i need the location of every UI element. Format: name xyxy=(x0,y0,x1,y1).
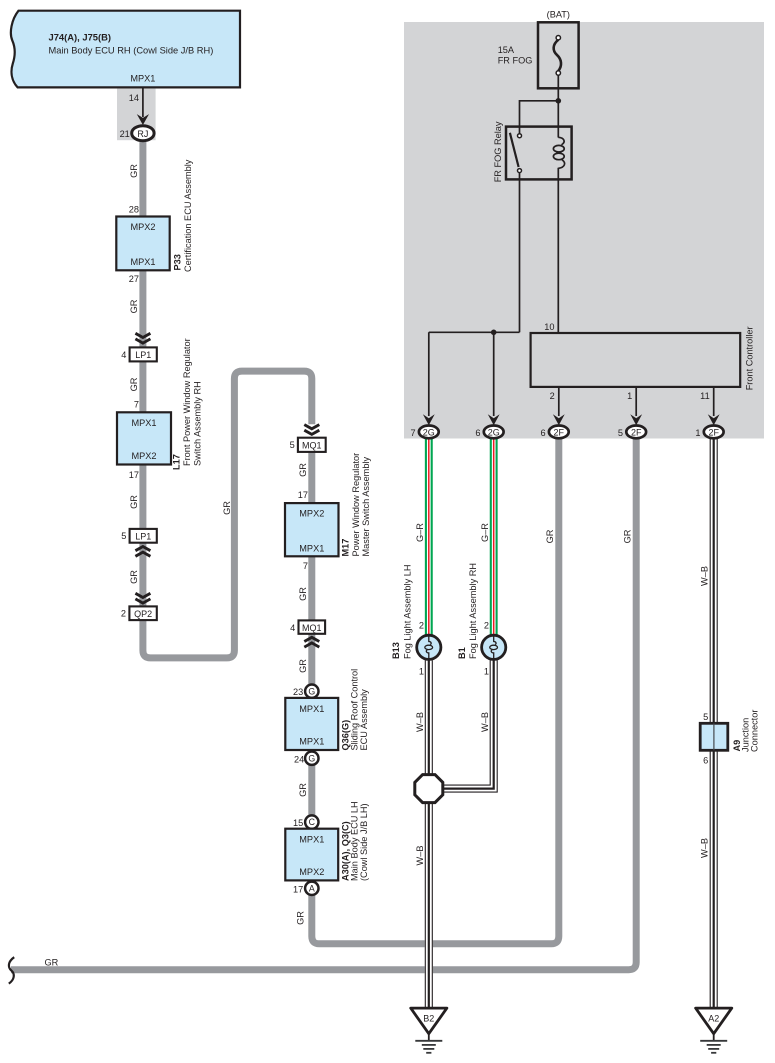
svg-text:QP2: QP2 xyxy=(134,609,152,619)
svg-text:Main Body ECU RH (Cowl Side J/: Main Body ECU RH (Cowl Side J/B RH) xyxy=(49,45,214,55)
wire GR: MQ1 pin 4 to Q36 pin 23 xyxy=(308,634,315,686)
svg-text:GR: GR xyxy=(129,495,139,509)
chevron marker into LP1 pin 4 xyxy=(135,333,150,343)
wire W-B: 2F-1 to junction connector A9 xyxy=(710,438,717,724)
chevron marker into QP2 xyxy=(135,593,150,603)
svg-text:W–B: W–B xyxy=(415,712,425,732)
svg-text:B13: B13 xyxy=(391,642,401,659)
chevron marker out of LP1 pin 5 xyxy=(135,547,150,557)
svg-text:2: 2 xyxy=(121,609,126,619)
svg-text:GR: GR xyxy=(298,587,308,601)
svg-text:Certification ECU Assembly: Certification ECU Assembly xyxy=(183,159,193,272)
svg-text:P33: P33 xyxy=(173,254,183,270)
svg-text:17: 17 xyxy=(298,490,308,500)
svg-text:2F: 2F xyxy=(631,427,642,437)
svg-text:11: 11 xyxy=(700,391,710,401)
wire GR: RJ to P33 pin 28 xyxy=(139,139,146,218)
svg-text:W–B: W–B xyxy=(415,846,425,866)
wire: junction branch to relay switch xyxy=(520,101,559,134)
svg-text:(BAT): (BAT) xyxy=(547,10,570,20)
svg-text:MPX1: MPX1 xyxy=(299,704,324,714)
svg-text:5: 5 xyxy=(618,428,623,438)
arrow into 2G-6 xyxy=(488,414,500,425)
gray connector strip under J74 box xyxy=(117,89,156,141)
svg-text:GR: GR xyxy=(45,958,59,968)
svg-text:GR: GR xyxy=(129,570,139,584)
ECU box P33 Certification ECU Assembly xyxy=(116,217,169,271)
fog light B1 bulb xyxy=(482,635,506,659)
svg-text:G–R: G–R xyxy=(415,523,425,542)
svg-text:Master Switch Assembly: Master Switch Assembly xyxy=(361,457,371,557)
svg-text:C: C xyxy=(309,817,316,827)
svg-text:7: 7 xyxy=(410,428,415,438)
connector circle A pin 17 xyxy=(305,882,318,895)
arrow into RJ xyxy=(137,114,149,125)
svg-text:RJ: RJ xyxy=(137,129,148,139)
svg-text:2: 2 xyxy=(419,620,424,630)
connector RJ (pin 21) xyxy=(132,126,154,141)
ECU box A30(A) Q3(C) Main Body ECU LH xyxy=(285,829,338,881)
ECU box Q36(G) Sliding Roof Control ECU xyxy=(285,698,338,750)
wire W-B: ground splice octagon to ground B2 xyxy=(425,801,432,1009)
svg-text:17: 17 xyxy=(293,884,303,894)
wire: front controller pin 2 drop xyxy=(558,387,560,416)
svg-text:GR: GR xyxy=(622,529,632,543)
gray engine-room relay-block panel xyxy=(404,22,764,439)
wire: J74 MPX1 pin 14 drop xyxy=(142,88,144,117)
wire GR: QP2 pin 2 around to MQ1 pin 5 xyxy=(143,371,312,658)
svg-text:5: 5 xyxy=(121,531,126,541)
connector circle C pin 15 xyxy=(305,815,318,828)
junction dot at 2G branch xyxy=(491,330,497,336)
svg-text:Front Power Window Regulator: Front Power Window Regulator xyxy=(182,338,192,466)
svg-text:Power Window Regulator: Power Window Regulator xyxy=(351,453,361,557)
wire: 2G branch row horizontal xyxy=(429,331,520,333)
ground B2 xyxy=(411,1008,447,1034)
svg-text:GR: GR xyxy=(129,377,139,391)
ECU box J74(A), J75(B) Main Body ECU RH xyxy=(11,11,240,88)
wire: relay coil to front controller pin 10 xyxy=(557,168,559,334)
svg-text:GR: GR xyxy=(298,659,308,673)
wire GR: M17 pin 7 to MQ1 pin 4 xyxy=(308,556,315,622)
connector oval 2F pin 5 xyxy=(626,426,646,439)
svg-text:15: 15 xyxy=(293,818,303,828)
svg-text:6: 6 xyxy=(703,755,708,765)
connector circle G pin 24 xyxy=(305,752,318,765)
svg-text:MPX1: MPX1 xyxy=(130,257,155,267)
front controller box xyxy=(531,333,741,387)
svg-text:GR: GR xyxy=(298,783,308,797)
svg-text:4: 4 xyxy=(121,350,126,360)
svg-text:MPX1: MPX1 xyxy=(299,543,324,553)
connector oval 2F pin 6 xyxy=(549,426,569,439)
wire GR: L17 pin 17 to LP1 pin 5 xyxy=(139,464,146,530)
fuse 15A FR FOG box xyxy=(538,22,579,88)
svg-text:FR FOG Relay: FR FOG Relay xyxy=(493,121,503,182)
svg-text:B1: B1 xyxy=(457,647,467,659)
svg-text:GR: GR xyxy=(129,164,139,178)
arrow into 2G-7 xyxy=(423,414,435,425)
svg-text:Sliding Roof Control: Sliding Roof Control xyxy=(350,669,360,751)
svg-text:LP1: LP1 xyxy=(135,531,151,541)
svg-text:MPX1: MPX1 xyxy=(299,737,324,747)
wire GR: A30 pin 17 around to front controller 2F-6 xyxy=(312,438,559,944)
svg-text:1: 1 xyxy=(484,667,489,677)
switch box M17 Power Window Regulator Master Switch xyxy=(285,503,339,556)
svg-text:2G: 2G xyxy=(423,427,435,437)
wire: relay switch to 2G branch row xyxy=(519,173,521,333)
svg-text:27: 27 xyxy=(129,274,139,284)
svg-text:MQ1: MQ1 xyxy=(302,441,322,451)
svg-text:A2: A2 xyxy=(708,1013,719,1023)
ground splice octagon xyxy=(415,775,443,803)
connector MQ1 pin 4 xyxy=(299,620,326,633)
relay FR FOG box xyxy=(506,127,572,180)
svg-text:5: 5 xyxy=(703,712,708,722)
wire GR: LP1 pin 5 to QP2 pin 2 xyxy=(139,542,146,607)
svg-text:GR: GR xyxy=(298,463,308,477)
wire W-B: junction connector A9 to ground A2 xyxy=(710,750,717,1009)
svg-text:15A: 15A xyxy=(498,45,515,55)
svg-text:ECU Assembly: ECU Assembly xyxy=(359,689,369,751)
wire: drop to 2G-6 xyxy=(493,332,495,416)
svg-text:Main Body ECU LH: Main Body ECU LH xyxy=(350,801,360,881)
fuse element xyxy=(554,40,561,71)
chevron marker out of MQ1 pin 4 xyxy=(304,637,319,647)
svg-text:4: 4 xyxy=(290,623,295,633)
svg-text:MPX1: MPX1 xyxy=(131,418,156,428)
svg-text:28: 28 xyxy=(129,205,139,215)
svg-text:A: A xyxy=(309,883,315,893)
arrow into 2F-6 xyxy=(553,414,565,425)
wire GR: LP1 to L17 pin 7 xyxy=(139,361,146,414)
svg-text:6: 6 xyxy=(475,428,480,438)
svg-text:1: 1 xyxy=(695,428,700,438)
svg-text:1: 1 xyxy=(419,667,424,677)
svg-text:2F: 2F xyxy=(708,427,719,437)
svg-text:G–R: G–R xyxy=(480,523,490,542)
wire G-R: 2G-6 to fog light RH xyxy=(491,438,497,635)
connector oval 2G pin 7 xyxy=(419,426,439,439)
switch box L17 Front Power Window Regulator Switch RH xyxy=(117,412,171,464)
svg-text:G: G xyxy=(308,686,315,696)
svg-text:Fog Light Assembly LH: Fog Light Assembly LH xyxy=(402,565,412,659)
wire GR: front controller 2F-5 to left edge break xyxy=(11,438,636,970)
arrow into 2F-5 xyxy=(630,414,642,425)
svg-text:MPX2: MPX2 xyxy=(131,451,156,461)
svg-text:MPX2: MPX2 xyxy=(299,867,324,877)
svg-text:M17: M17 xyxy=(341,539,351,557)
svg-text:6: 6 xyxy=(540,428,545,438)
ground A2 xyxy=(696,1008,732,1034)
wire GR: MQ1 pin 5 to M17 pin 17 xyxy=(308,452,315,505)
svg-text:GR: GR xyxy=(296,911,306,925)
svg-text:GR: GR xyxy=(129,299,139,313)
svg-text:L17: L17 xyxy=(172,454,182,470)
svg-text:MPX2: MPX2 xyxy=(299,509,324,519)
svg-text:24: 24 xyxy=(294,754,304,764)
arrow into 2F-1 xyxy=(708,414,720,425)
wire GR: Q36 pin 24 to A30 pin 15 xyxy=(308,765,315,817)
connector oval 2F pin 1 xyxy=(704,426,724,439)
wire: fuse bottom to junction and relay coil xyxy=(557,75,559,137)
svg-text:LP1: LP1 xyxy=(135,350,151,360)
svg-text:W–B: W–B xyxy=(699,566,709,586)
svg-text:21: 21 xyxy=(120,129,130,139)
svg-text:MPX1: MPX1 xyxy=(130,73,155,83)
connector LP1 pin 5 xyxy=(130,529,157,543)
svg-text:W–B: W–B xyxy=(480,712,490,732)
svg-text:GR: GR xyxy=(222,501,232,515)
wire: front controller pin 11 drop xyxy=(713,387,715,416)
svg-text:10: 10 xyxy=(544,322,554,332)
connector QP2 pin 2 xyxy=(129,606,156,620)
svg-text:5: 5 xyxy=(290,440,295,450)
wire GR: P33 pin 27 to LP1 pin 4 xyxy=(139,270,146,349)
connector circle G pin 23 xyxy=(305,685,318,698)
svg-text:Switch Assembly RH: Switch Assembly RH xyxy=(193,381,203,466)
svg-text:23: 23 xyxy=(293,687,303,697)
svg-text:14: 14 xyxy=(129,93,139,103)
svg-text:B2: B2 xyxy=(423,1013,434,1023)
svg-text:MQ1: MQ1 xyxy=(302,623,322,633)
svg-text:7: 7 xyxy=(134,400,139,410)
svg-text:7: 7 xyxy=(303,561,308,571)
junction dot at fuse branch xyxy=(556,98,562,104)
wire: front controller pin 1 drop xyxy=(635,387,637,416)
connector MQ1 pin 5 xyxy=(298,438,326,452)
svg-text:Fog Light Assembly RH: Fog Light Assembly RH xyxy=(468,563,478,659)
svg-text:2F: 2F xyxy=(554,427,565,437)
svg-text:Front Controller: Front Controller xyxy=(745,326,755,390)
svg-text:Connector: Connector xyxy=(750,710,760,752)
svg-text:2G: 2G xyxy=(488,427,500,437)
wire W-B: fog light RH down and left to ground splice octagon xyxy=(442,660,497,792)
svg-text:2: 2 xyxy=(550,391,555,401)
svg-text:G: G xyxy=(308,753,315,763)
svg-text:1: 1 xyxy=(627,391,632,401)
chevron marker into MQ1 pin 5 xyxy=(304,425,319,435)
svg-text:2: 2 xyxy=(484,620,489,630)
junction connector A9 xyxy=(700,723,728,750)
svg-text:J74(A), J75(B): J74(A), J75(B) xyxy=(49,31,112,42)
svg-text:17: 17 xyxy=(129,470,139,480)
wire W-B: fog light LH to ground splice octagon xyxy=(425,660,432,776)
svg-text:W–B: W–B xyxy=(699,838,709,858)
fog light B13 bulb xyxy=(417,635,441,659)
relay coil xyxy=(553,137,564,168)
svg-text:MPX1: MPX1 xyxy=(299,835,324,845)
wire break squiggle at left edge xyxy=(9,957,14,983)
wire G-R: 2G-7 to fog light LH xyxy=(426,438,432,635)
svg-text:(Cowl Side J/B LH): (Cowl Side J/B LH) xyxy=(359,803,369,881)
connector LP1 pin 4 xyxy=(130,347,157,361)
wire: drop to 2G-7 xyxy=(428,332,430,416)
svg-text:GR: GR xyxy=(545,529,555,543)
svg-text:MPX2: MPX2 xyxy=(130,222,155,232)
relay switch blade xyxy=(510,133,519,167)
svg-text:FR FOG: FR FOG xyxy=(498,55,533,65)
connector oval 2G pin 6 xyxy=(484,426,504,439)
